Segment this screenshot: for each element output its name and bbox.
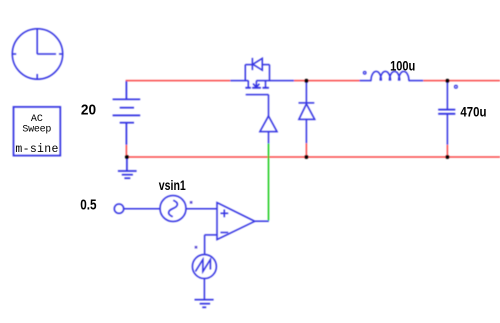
svg-text:Sweep: Sweep [22, 124, 51, 135]
svg-text:0.5: 0.5 [80, 196, 96, 213]
svg-text:20: 20 [81, 102, 96, 119]
svg-text:AC: AC [31, 114, 43, 125]
svg-text:100u: 100u [390, 58, 415, 74]
svg-text:m-sine: m-sine [15, 143, 58, 156]
svg-text:vsin1: vsin1 [159, 177, 186, 193]
svg-text:470u: 470u [460, 103, 486, 119]
